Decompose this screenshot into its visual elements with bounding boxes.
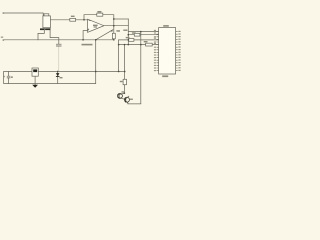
svg-text:+: + xyxy=(3,75,5,79)
